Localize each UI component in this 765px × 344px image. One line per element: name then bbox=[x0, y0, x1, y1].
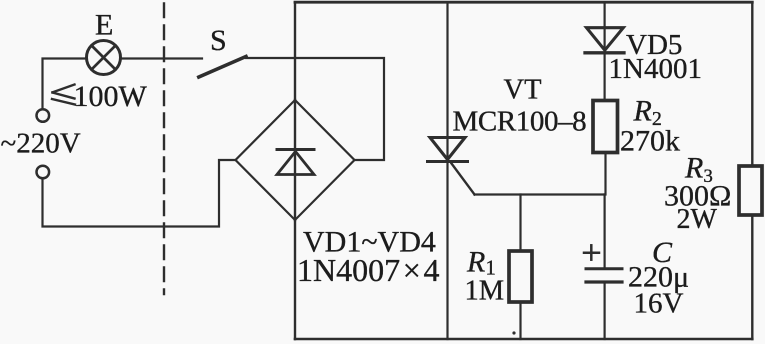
capacitor C bottom lead bbox=[603, 284, 605, 340]
resistor R1 lead top bbox=[519, 195, 521, 251]
capacitor C plus sign bbox=[584, 245, 599, 259]
resistor R1 lead bottom bbox=[519, 303, 521, 340]
svg-text:270k: 270k bbox=[620, 125, 680, 158]
capacitor C top plate bbox=[586, 267, 622, 270]
junction dot bbox=[512, 331, 515, 334]
bridge rectifier VD1~VD4 diamond bbox=[236, 100, 355, 220]
resistor R3 bbox=[739, 166, 762, 215]
label <=100W (slanted less-or-equal glyph) bbox=[52, 85, 75, 105]
resistor R1 bbox=[509, 251, 532, 302]
svg-text:1M: 1M bbox=[465, 276, 505, 307]
wire lamp to switch pole bbox=[121, 57, 203, 59]
diode VD5 cathode bar bbox=[585, 51, 624, 54]
diode VD5 triangle bbox=[587, 28, 624, 51]
box left border upper (bridge + output) bbox=[294, 3, 296, 100]
thyristor VT triangle bbox=[430, 138, 465, 160]
svg-text:1N4007 × 4: 1N4007 × 4 bbox=[297, 252, 440, 288]
capacitor C bottom plate bbox=[586, 280, 622, 283]
wire switch to bridge right vertex bbox=[246, 58, 384, 160]
lamp E bbox=[87, 41, 121, 75]
thyristor VT gate lead bbox=[452, 164, 475, 195]
svg-text:2W: 2W bbox=[677, 204, 718, 235]
svg-text:1N4001: 1N4001 bbox=[609, 53, 702, 85]
diode VD5 cathode wire bbox=[603, 54, 605, 100]
svg-text:16V: 16V bbox=[634, 288, 684, 320]
svg-text:E: E bbox=[95, 9, 113, 42]
box top border bbox=[295, 1, 752, 4]
dashed separator line bbox=[163, 4, 165, 295]
box left border lower bbox=[294, 220, 296, 339]
box right border upper bbox=[751, 2, 753, 165]
thyristor VT cathode bar bbox=[428, 160, 468, 163]
resistor R2 lead bottom bbox=[604, 153, 606, 195]
thyristor VT cathode wire bbox=[446, 163, 448, 340]
box bottom border bbox=[295, 338, 752, 341]
terminal L (top input) bbox=[37, 109, 50, 122]
box right border lower bbox=[751, 216, 753, 340]
wire terminal N to bridge left vertex bbox=[43, 160, 236, 227]
diode VD5 anode wire bbox=[603, 2, 605, 50]
capacitor C top lead bbox=[603, 195, 605, 269]
terminal N (bottom input) bbox=[37, 166, 50, 179]
bridge diode triangle bbox=[277, 152, 314, 175]
svg-text:~220V: ~220V bbox=[1, 128, 81, 160]
svg-text:VT: VT bbox=[504, 75, 542, 106]
wire terminal L to lamp bbox=[43, 59, 87, 109]
bridge diode cathode bar bbox=[277, 148, 314, 151]
thyristor VT anode wire bbox=[446, 2, 448, 159]
svg-text:MCR100–8: MCR100–8 bbox=[453, 106, 587, 138]
resistor R2 bbox=[593, 101, 618, 153]
gate node wire bbox=[475, 193, 605, 195]
bridge internal wire top vertex to bottom vertex bbox=[294, 100, 296, 220]
svg-text:100W: 100W bbox=[74, 80, 148, 113]
svg-text:S: S bbox=[210, 24, 227, 57]
switch S blade bbox=[199, 57, 246, 78]
